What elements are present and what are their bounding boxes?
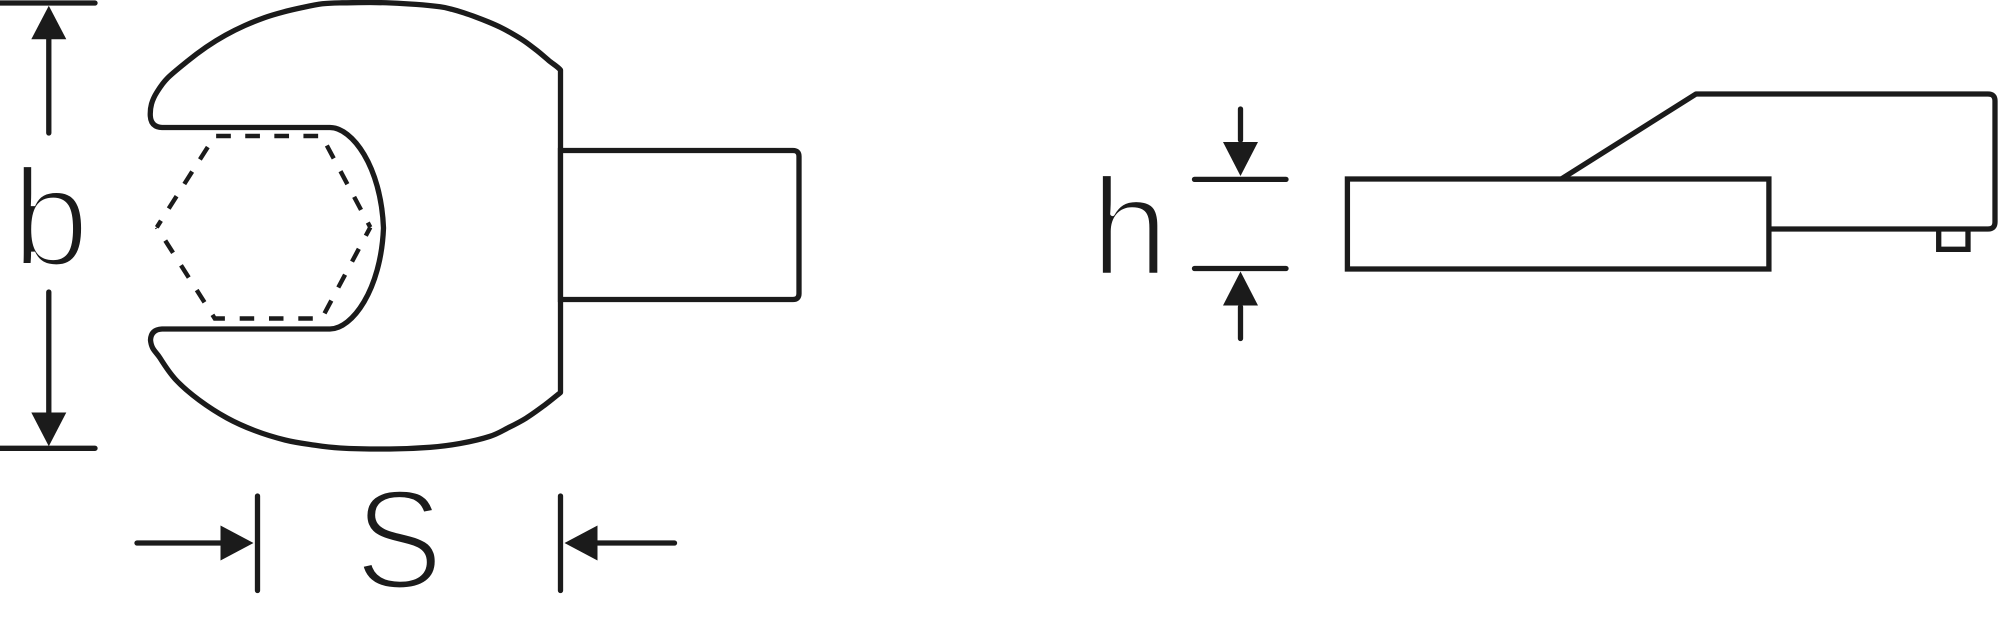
svg-text:h: h bbox=[1091, 149, 1169, 305]
svg-text:b: b bbox=[12, 140, 89, 295]
svg-text:S: S bbox=[355, 460, 443, 618]
